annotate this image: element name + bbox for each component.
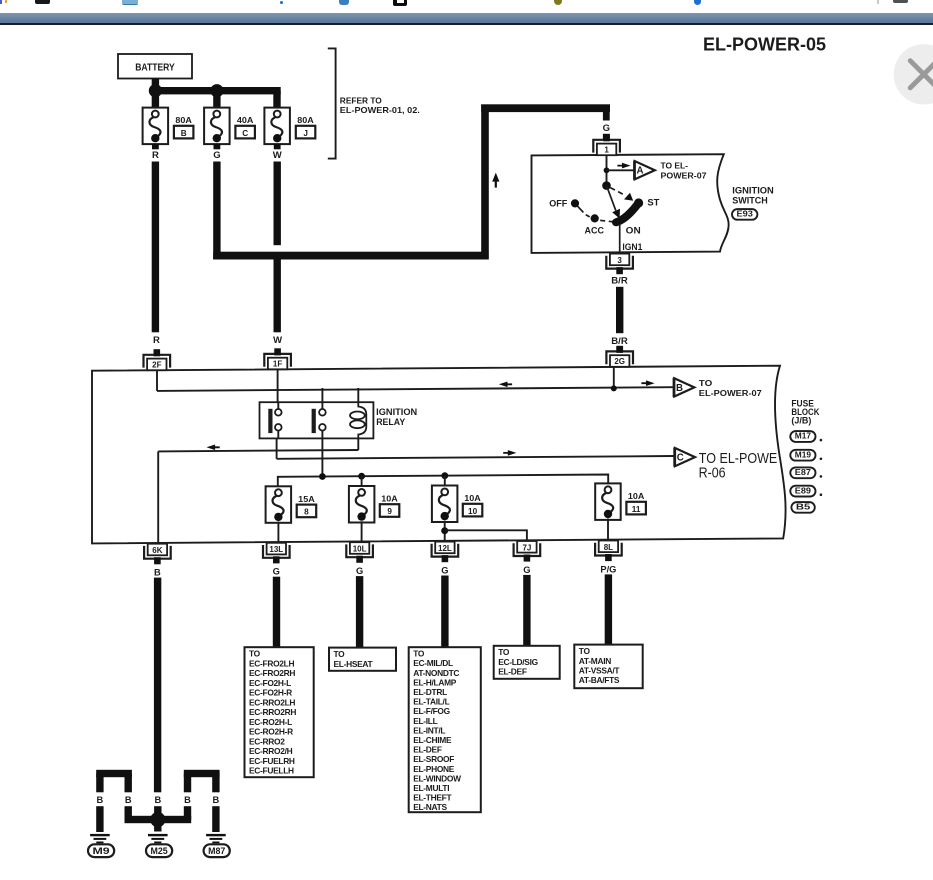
svg-text:B: B bbox=[154, 568, 161, 578]
svg-text:EC-RRO2: EC-RRO2 bbox=[249, 736, 285, 746]
svg-text:B: B bbox=[97, 795, 104, 805]
svg-text:1F: 1F bbox=[273, 359, 282, 368]
svg-text:AT-BA/FTS: AT-BA/FTS bbox=[579, 675, 620, 685]
svg-text:EL-WINDOW: EL-WINDOW bbox=[413, 773, 461, 783]
svg-text:M25: M25 bbox=[151, 846, 168, 856]
svg-text:EL-DEF: EL-DEF bbox=[413, 745, 442, 755]
svg-text:EL-ILL: EL-ILL bbox=[413, 716, 437, 726]
svg-text:POWER-07: POWER-07 bbox=[661, 171, 707, 181]
svg-text:G: G bbox=[441, 566, 448, 576]
svg-text:8L: 8L bbox=[604, 543, 613, 552]
svg-text:8: 8 bbox=[304, 508, 309, 517]
svg-text:EC-MIL/DL: EC-MIL/DL bbox=[413, 658, 453, 668]
svg-text:TO: TO bbox=[334, 649, 346, 659]
svg-text:EL-POWER-05: EL-POWER-05 bbox=[703, 33, 826, 54]
svg-text:1: 1 bbox=[604, 145, 609, 154]
svg-text:M87: M87 bbox=[208, 846, 225, 856]
svg-text:EL-NATS: EL-NATS bbox=[413, 802, 447, 812]
svg-text:EL-MULTI: EL-MULTI bbox=[413, 783, 449, 793]
svg-text:40A: 40A bbox=[237, 115, 254, 125]
svg-text:E93: E93 bbox=[737, 210, 754, 219]
svg-text:IGNITION: IGNITION bbox=[376, 407, 417, 417]
svg-text:P/G: P/G bbox=[600, 564, 616, 574]
svg-text:B/R: B/R bbox=[611, 336, 628, 346]
svg-text:EC-RRO2/H: EC-RRO2/H bbox=[249, 746, 293, 756]
svg-text:E89: E89 bbox=[795, 486, 812, 495]
svg-text:G: G bbox=[523, 565, 530, 575]
svg-text:C: C bbox=[677, 453, 684, 464]
svg-text:G: G bbox=[356, 566, 363, 576]
svg-text:EC-LD/SIG: EC-LD/SIG bbox=[498, 657, 538, 667]
svg-text:EC-RRO2RH: EC-RRO2RH bbox=[249, 707, 296, 717]
svg-text:BATTERY: BATTERY bbox=[135, 63, 175, 74]
svg-text:10L: 10L bbox=[353, 545, 367, 554]
svg-text:TO: TO bbox=[498, 647, 510, 657]
svg-text:M17: M17 bbox=[795, 432, 812, 441]
svg-text:9: 9 bbox=[387, 507, 392, 516]
svg-text:ST: ST bbox=[647, 198, 659, 209]
svg-text:EC-FO2H-R: EC-FO2H-R bbox=[249, 688, 292, 698]
svg-text:EC-FRO2RH: EC-FRO2RH bbox=[249, 668, 295, 678]
svg-text:RELAY: RELAY bbox=[376, 417, 405, 427]
svg-text:EL-CHIME: EL-CHIME bbox=[413, 735, 452, 745]
svg-text:B: B bbox=[125, 795, 132, 805]
svg-text:M9: M9 bbox=[93, 846, 110, 856]
svg-text:B: B bbox=[181, 129, 187, 138]
svg-text:80A: 80A bbox=[297, 115, 314, 125]
svg-text:SWITCH: SWITCH bbox=[732, 195, 768, 206]
svg-text:13L: 13L bbox=[269, 545, 283, 554]
svg-text:TO: TO bbox=[699, 378, 713, 388]
svg-text:EL-PHONE: EL-PHONE bbox=[413, 764, 455, 774]
svg-text:B: B bbox=[213, 795, 220, 805]
svg-text:EC-RO2H-R: EC-RO2H-R bbox=[249, 727, 293, 737]
svg-text:OFF: OFF bbox=[549, 198, 567, 209]
svg-text:AT-NONDTC: AT-NONDTC bbox=[413, 668, 459, 678]
svg-text:EL-F/FOG: EL-F/FOG bbox=[413, 706, 450, 716]
svg-text:(J/B): (J/B) bbox=[791, 415, 811, 425]
svg-text:B: B bbox=[184, 795, 191, 805]
svg-text:EC-RO2H-L: EC-RO2H-L bbox=[249, 717, 292, 727]
svg-text:80A: 80A bbox=[175, 115, 192, 125]
svg-text:R: R bbox=[153, 335, 160, 346]
svg-text:EC-FUELRH: EC-FUELRH bbox=[249, 756, 295, 766]
svg-text:B: B bbox=[676, 383, 683, 394]
svg-text:B5: B5 bbox=[796, 503, 811, 512]
svg-text:EL-THEFT: EL-THEFT bbox=[413, 793, 452, 803]
svg-text:EL-POWER-07: EL-POWER-07 bbox=[699, 388, 762, 398]
svg-text:G: G bbox=[603, 123, 610, 134]
svg-text:10A: 10A bbox=[628, 491, 645, 501]
svg-text:EL-SROOF: EL-SROOF bbox=[413, 754, 454, 764]
svg-text:C: C bbox=[242, 129, 248, 138]
svg-text:EC-RRO2LH: EC-RRO2LH bbox=[249, 697, 295, 707]
svg-text:AT-VSSA/T: AT-VSSA/T bbox=[579, 666, 621, 676]
svg-text:EL-DEF: EL-DEF bbox=[498, 667, 527, 677]
svg-text:G: G bbox=[213, 150, 220, 161]
svg-text:7J: 7J bbox=[522, 543, 531, 552]
svg-text:AT-MAIN: AT-MAIN bbox=[579, 656, 611, 666]
svg-text:R-06: R-06 bbox=[699, 466, 726, 482]
svg-text:EL-DTRL: EL-DTRL bbox=[413, 687, 447, 697]
svg-text:12L: 12L bbox=[438, 544, 452, 553]
svg-text:10: 10 bbox=[468, 507, 478, 516]
svg-text:TO: TO bbox=[249, 649, 261, 659]
svg-text:EL-H/LAMP: EL-H/LAMP bbox=[413, 677, 457, 687]
svg-text:W: W bbox=[273, 150, 282, 161]
svg-text:R: R bbox=[152, 150, 159, 161]
svg-text:REFER TO: REFER TO bbox=[340, 97, 383, 106]
svg-text:ON: ON bbox=[626, 226, 641, 237]
svg-text:EC-FUELLH: EC-FUELLH bbox=[249, 766, 294, 776]
svg-text:J: J bbox=[303, 129, 308, 138]
svg-text:2G: 2G bbox=[614, 357, 625, 366]
svg-text:11: 11 bbox=[632, 505, 641, 514]
svg-text:TO EL-: TO EL- bbox=[661, 160, 689, 170]
svg-text:6K: 6K bbox=[152, 546, 162, 555]
svg-text:B/R: B/R bbox=[611, 276, 628, 286]
svg-text:2F: 2F bbox=[152, 360, 161, 369]
svg-text:W: W bbox=[273, 335, 282, 346]
svg-text:TO: TO bbox=[413, 649, 425, 659]
svg-text:B: B bbox=[154, 795, 161, 805]
svg-text:15A: 15A bbox=[298, 494, 315, 504]
svg-text:EL-INT/L: EL-INT/L bbox=[413, 725, 445, 735]
svg-text:E87: E87 bbox=[795, 468, 812, 477]
svg-text:ACC: ACC bbox=[585, 226, 605, 237]
svg-text:EL-TAIL/L: EL-TAIL/L bbox=[413, 697, 449, 707]
svg-text:A: A bbox=[637, 166, 644, 177]
svg-text:10A: 10A bbox=[381, 494, 398, 504]
svg-text:M19: M19 bbox=[795, 450, 812, 459]
svg-text:IGN1: IGN1 bbox=[622, 242, 642, 252]
svg-text:TO: TO bbox=[579, 646, 591, 656]
svg-text:3: 3 bbox=[617, 256, 622, 265]
svg-text:EL-HSEAT: EL-HSEAT bbox=[334, 659, 374, 669]
svg-text:10A: 10A bbox=[464, 493, 481, 503]
svg-text:EL-POWER-01, 02.: EL-POWER-01, 02. bbox=[340, 106, 420, 115]
svg-text:EC-FRO2LH: EC-FRO2LH bbox=[249, 658, 294, 668]
svg-text:G: G bbox=[273, 567, 280, 577]
svg-text:EC-FO2H-L: EC-FO2H-L bbox=[249, 678, 291, 688]
